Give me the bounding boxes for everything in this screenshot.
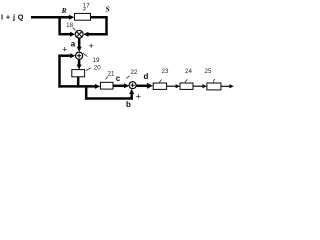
wire: tap from input node down to multiplier 18 left input	[59, 16, 76, 37]
svg-text:R: R	[61, 6, 67, 15]
wire: block 17 output loop down to multiplier 18 right input	[83, 16, 107, 37]
block 25	[207, 83, 221, 90]
block 23	[153, 83, 166, 89]
svg-text:+: +	[62, 45, 67, 55]
label 17 with leader	[83, 3, 90, 11]
wire d: adder 22 output into block 23	[136, 83, 153, 89]
block 24	[180, 83, 193, 89]
svg-text:+: +	[136, 92, 141, 102]
wire: final output arrow	[221, 84, 234, 88]
svg-text:25: 25	[205, 68, 212, 75]
label 22 with leader	[126, 69, 138, 79]
svg-text:24: 24	[185, 68, 192, 75]
svg-text:d: d	[144, 72, 149, 81]
wire: input line into block 17	[31, 15, 74, 20]
svg-text:23: 23	[162, 68, 169, 75]
register 20	[72, 70, 85, 77]
svg-text:21: 21	[108, 71, 115, 78]
wire: block 24 to block 25	[193, 84, 207, 88]
adder 19	[76, 52, 83, 59]
label 19 with leader	[83, 53, 100, 64]
wire a: multiplier 18 output down into adder 19	[77, 38, 82, 52]
label 24 with leader	[185, 68, 193, 82]
label 25 with leader	[205, 68, 215, 82]
multiplier 18	[75, 30, 83, 38]
wire: register 20 output down to feedback bus	[77, 77, 80, 88]
svg-text:20: 20	[94, 64, 101, 71]
label 20 with leader	[86, 64, 101, 71]
block 21	[100, 82, 113, 89]
svg-text:18: 18	[66, 22, 73, 29]
wire c: block 21 output into adder 22	[113, 83, 129, 88]
svg-text:b: b	[126, 100, 131, 109]
wire: block 23 to block 24	[167, 84, 180, 88]
wire: adder 19 output down into register 20	[77, 59, 82, 69]
svg-text:c: c	[116, 74, 121, 83]
label 18 with leader	[66, 22, 75, 30]
svg-text:19: 19	[93, 57, 100, 64]
wire: feedback bus up into adder 19 left input	[58, 53, 75, 87]
wire: bus to block 21	[58, 84, 100, 89]
label 23 with leader	[159, 68, 169, 82]
wire b: feedback tap from bus up into adder 22 bottom input	[85, 85, 134, 99]
svg-text:22: 22	[131, 69, 138, 76]
block 17	[75, 13, 91, 20]
svg-text:17: 17	[83, 3, 90, 10]
label 21 with leader	[105, 71, 115, 80]
svg-text:a: a	[71, 39, 76, 48]
svg-text:I + j Q: I + j Q	[1, 13, 24, 22]
svg-text:S: S	[106, 4, 110, 13]
svg-text:+: +	[88, 41, 93, 51]
adder 22	[129, 82, 136, 89]
